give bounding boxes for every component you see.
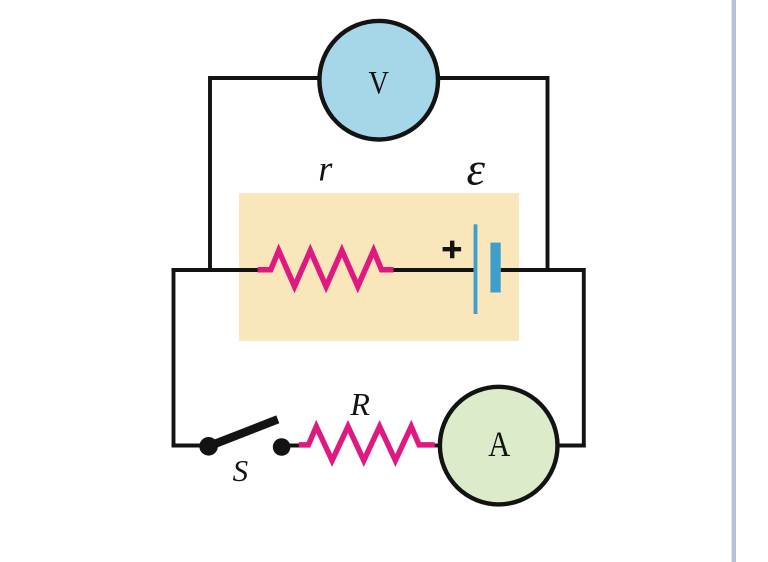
- svg-text:A: A: [488, 424, 510, 464]
- svg-text:R: R: [349, 386, 370, 422]
- svg-text:V: V: [368, 66, 389, 102]
- wire resistor R to ammeter stub: [431, 444, 441, 448]
- switch contact dot left: [199, 437, 218, 456]
- battery short plate: [490, 243, 500, 293]
- wire switch to resistor R stub: [282, 444, 301, 448]
- svg-text:S: S: [233, 453, 249, 488]
- wire outer left vertical: [172, 268, 176, 447]
- voltmeter V: [319, 21, 438, 140]
- wire top voltmeter loop: [210, 78, 548, 271]
- wire outer right vertical: [582, 268, 586, 447]
- wire ammeter to bottom right corner: [556, 444, 586, 448]
- switch S: [199, 419, 290, 456]
- ammeter A: [440, 387, 558, 505]
- resistor r: [258, 251, 394, 287]
- resistor R: [299, 427, 435, 461]
- switch contact dot right: [273, 438, 291, 456]
- battery plus sign: [443, 241, 462, 259]
- wire main horizontal left: [172, 268, 259, 272]
- svg-text:r: r: [318, 149, 333, 189]
- wire battery to right corner: [501, 268, 584, 272]
- battery highlight box: [239, 193, 519, 341]
- switch lever: [209, 419, 278, 446]
- wire resistor r to battery: [392, 268, 474, 272]
- battery long plate: [474, 224, 478, 314]
- svg-text:ε: ε: [467, 144, 486, 196]
- wire bottom left to switch: [172, 444, 209, 448]
